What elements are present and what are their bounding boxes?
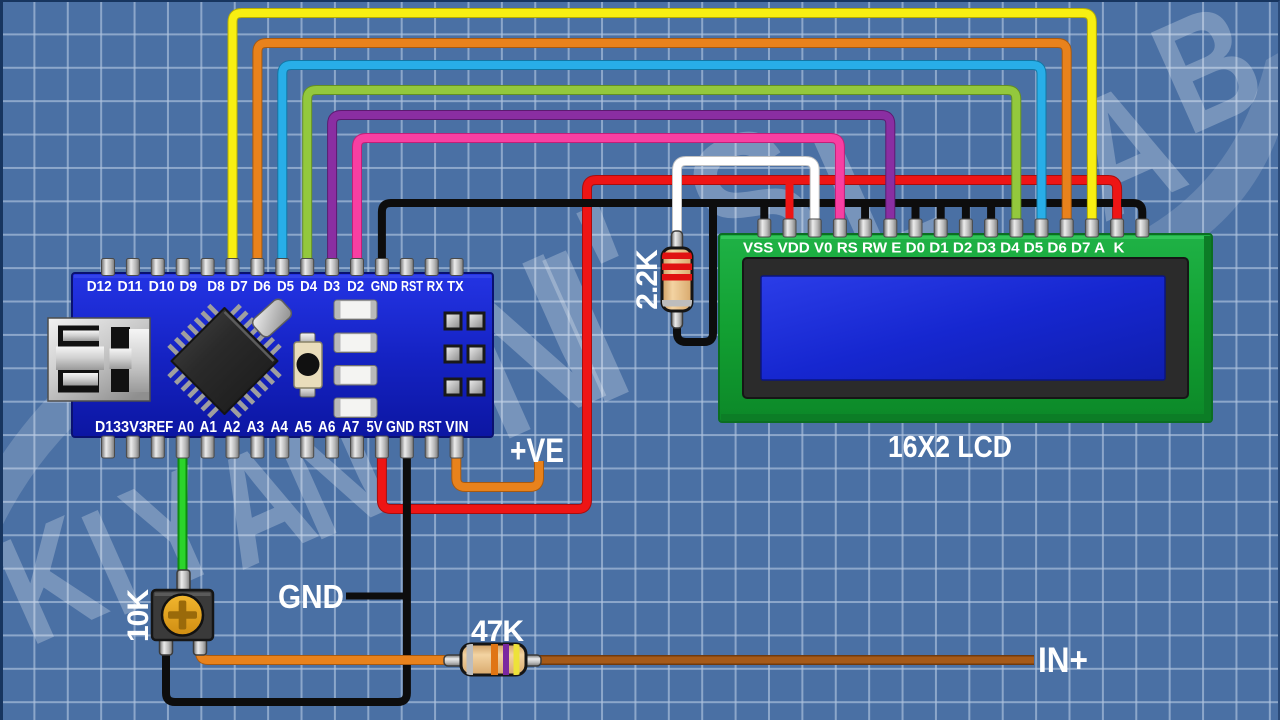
wire black stub RW <box>861 203 869 224</box>
svg-text:A7: A7 <box>342 419 360 436</box>
wire orange D6 to D6 <box>257 43 1066 260</box>
wire black stub VSS <box>760 203 768 224</box>
Arduino top header pins <box>102 259 464 276</box>
svg-text:GND: GND <box>371 279 398 295</box>
SMD capacitors C1-C4 <box>334 300 377 418</box>
svg-text:GND: GND <box>386 419 414 436</box>
LCD screen <box>761 276 1165 380</box>
wire black GND bottom <box>166 452 407 702</box>
wire black 2.2K to bus <box>677 200 713 342</box>
wire GND label stub <box>346 593 405 600</box>
reset button SW1 <box>294 333 322 397</box>
svg-text:A5: A5 <box>294 419 312 436</box>
wire red 5V to LCD A <box>382 180 1117 509</box>
wire black stub D2 <box>962 203 970 224</box>
svg-text:VSS VDD V0 RS RW E D0 D1 D2 D3: VSS VDD V0 RS RW E D0 D1 D2 D3 D4 D5 D6 … <box>743 239 1125 256</box>
svg-text:D10: D10 <box>149 279 175 295</box>
Arduino Nano board U1 <box>72 273 493 437</box>
microcontroller chip U2 <box>169 305 280 416</box>
svg-text:RX: RX <box>427 279 444 295</box>
svg-text:D8: D8 <box>207 279 225 295</box>
wire black GND bus <box>382 203 1142 260</box>
ICSP header pins <box>444 312 486 397</box>
svg-text:5V: 5V <box>367 419 383 436</box>
svg-text:A1: A1 <box>200 419 218 436</box>
svg-text:D7: D7 <box>230 279 248 295</box>
resistor R1 2.2K <box>662 231 692 328</box>
resistor R2 47K <box>444 644 541 675</box>
potentiometer RV1 10K <box>152 570 213 655</box>
wire red branch to VDD <box>786 180 794 224</box>
wire cyan D5 to D5 <box>282 65 1041 260</box>
svg-text:16X2 LCD: 16X2 LCD <box>888 429 1012 464</box>
wire black stub D3 <box>987 203 995 224</box>
svg-text:2.2K: 2.2K <box>631 249 664 310</box>
svg-text:RST: RST <box>401 279 423 295</box>
svg-text:D5: D5 <box>277 279 294 295</box>
svg-text:RST: RST <box>419 419 442 436</box>
Arduino bottom header pins <box>102 436 464 458</box>
svg-text:+VE: +VE <box>510 432 564 470</box>
svg-text:D2: D2 <box>347 279 364 295</box>
USB connector J1 <box>48 318 150 401</box>
svg-text:TX: TX <box>447 279 464 295</box>
wire black stub D1 <box>937 203 945 224</box>
svg-text:D11: D11 <box>118 279 143 295</box>
wire yellow D7 to D7 <box>233 13 1092 260</box>
svg-text:D3: D3 <box>324 279 341 295</box>
wire orange pot to 47K <box>200 644 452 660</box>
wire brown to IN+ <box>536 655 1034 665</box>
LCD bezel <box>743 258 1188 398</box>
Arduino top pin labels <box>87 279 464 295</box>
wire black stub D0 <box>912 203 920 224</box>
svg-text:D9: D9 <box>180 279 198 295</box>
svg-text:VIN: VIN <box>445 419 468 436</box>
wire orange VIN to +VE <box>456 452 539 487</box>
LCD header pins <box>758 219 1149 237</box>
wire pink D2 to RS <box>357 138 840 260</box>
svg-text:D6: D6 <box>253 279 271 295</box>
crystal Y1 <box>250 297 294 340</box>
svg-text:REF: REF <box>147 419 174 436</box>
svg-text:A2: A2 <box>223 419 241 436</box>
svg-text:3V3: 3V3 <box>121 419 147 436</box>
svg-text:D12: D12 <box>87 279 112 295</box>
svg-text:47K: 47K <box>471 615 524 648</box>
wire white 2.2K to V0 <box>677 161 815 240</box>
svg-text:D4: D4 <box>300 279 318 295</box>
svg-text:A3: A3 <box>247 419 265 436</box>
svg-text:A4: A4 <box>270 419 288 436</box>
LCD module 16x2 <box>719 234 1212 422</box>
svg-text:IN+: IN+ <box>1038 641 1088 680</box>
wire green A0 to pot <box>178 452 188 582</box>
svg-text:10K: 10K <box>122 589 155 642</box>
wire green D4 to D4 <box>307 90 1016 260</box>
wire red over bus patch <box>790 196 1118 211</box>
Arduino bottom pin labels <box>95 419 469 436</box>
svg-text:GND: GND <box>278 578 344 615</box>
svg-text:A0: A0 <box>178 419 195 436</box>
svg-text:D13: D13 <box>95 419 121 436</box>
wire purple D3 to E <box>332 115 890 260</box>
svg-text:A6: A6 <box>318 419 336 436</box>
